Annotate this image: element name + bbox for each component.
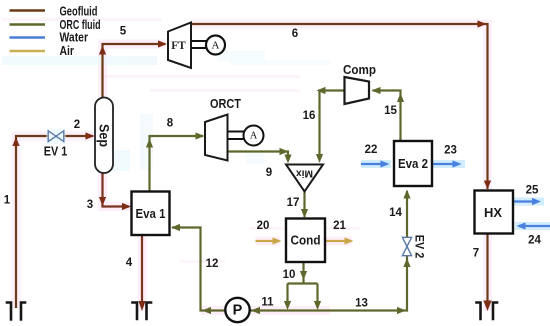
arrow wire5 up: [99, 46, 106, 55]
svg-text:11: 11: [261, 297, 274, 309]
svg-text:1: 1: [4, 195, 11, 207]
wire 5 (Sep top to FT): [103, 44, 166, 98]
svg-text:23: 23: [444, 145, 457, 157]
wire 11 (bottom run into pump): [250, 309, 319, 311]
svg-text:EV 1: EV 1: [44, 145, 68, 159]
glow artifacts (pink halo along geofluid pipes): [16, 24, 488, 311]
wire 4 (Eva 1 to injection well): [141, 235, 143, 301]
svg-text:Mix: Mix: [296, 168, 313, 180]
arrow wire24 into HX: [517, 222, 526, 229]
arrow wire13 right at corner: [397, 307, 406, 314]
svg-text:FT: FT: [171, 38, 186, 52]
wire 23 (water out of Eva 2): [432, 163, 459, 165]
mixer Mix: [286, 165, 323, 192]
arrow wire10 left branch down: [284, 301, 291, 310]
svg-text:16: 16: [303, 110, 316, 122]
wire 7 (HX to injection well): [486, 234, 488, 302]
svg-text:9: 9: [266, 167, 272, 179]
glow artifacts (cyan patches): [2, 51, 330, 171]
svg-text:14: 14: [389, 207, 402, 219]
wire 6 (FT to HX): [191, 24, 488, 189]
arrow wire4 down into well: [138, 301, 145, 311]
svg-text:2: 2: [74, 119, 80, 131]
wire 16 (Comp to Mix): [320, 91, 344, 156]
svg-text:20: 20: [257, 220, 270, 232]
wire 15 (Eva 2 to Comp): [373, 91, 401, 142]
arrow wire9 down into Mix: [284, 155, 291, 164]
svg-text:24: 24: [528, 235, 541, 247]
svg-text:HX: HX: [484, 205, 502, 220]
arrow wire16 left at corner: [317, 87, 326, 94]
wire 24 (water into HX): [519, 225, 550, 227]
wire 14 (EV 2 to Eva 2): [406, 191, 408, 238]
arrow wire7 down into well: [483, 301, 491, 312]
legend Air line: [10, 50, 46, 52]
arrow wire14 up into Eva 2: [403, 190, 410, 199]
svg-text:5: 5: [120, 26, 127, 38]
svg-text:Cond: Cond: [291, 234, 321, 248]
svg-text:P: P: [233, 303, 243, 319]
arrow wire8 into ORCT: [196, 132, 205, 139]
svg-text:3: 3: [87, 199, 93, 211]
wire 8 (Eva 1 to ORCT): [150, 136, 204, 192]
svg-text:Water: Water: [60, 29, 89, 44]
arrow wire22 into Eva 2: [381, 160, 390, 167]
wire 10 (Cond outlet split): [288, 262, 318, 303]
separator Sep: [95, 98, 113, 174]
svg-text:15: 15: [384, 105, 397, 117]
arrow wire15 into Comp: [372, 87, 381, 94]
legend labels: [60, 3, 101, 58]
heat exchanger HX: [475, 191, 514, 234]
legend Water line: [10, 36, 46, 38]
arrow wire1 up: [12, 137, 19, 146]
wire 12 (pump to Eva 1): [172, 228, 226, 311]
valve EV 1: [47, 129, 66, 145]
ORC arrowheads: [146, 87, 411, 314]
arrow wire3 down at corner: [99, 197, 106, 206]
svg-text:A: A: [250, 131, 258, 142]
well symbol middle (line 4): [133, 303, 152, 320]
wire 1 (production well to EV 1): [16, 136, 48, 308]
well symbol left (line 1): [7, 303, 25, 320]
legend Geofluid line: [10, 9, 46, 12]
glow (cyan halo along water pipes): [361, 164, 550, 226]
svg-text:4: 4: [126, 257, 133, 269]
svg-text:Comp: Comp: [343, 62, 376, 77]
svg-text:7: 7: [473, 248, 479, 260]
arrow wire17 down into Cond: [301, 209, 308, 218]
condenser Cond: [286, 219, 325, 263]
wire 25 (water out of HX): [513, 200, 539, 202]
wire 3 (Sep bottom to Eva 1): [103, 173, 130, 207]
wire 21 (air out of Cond): [325, 240, 351, 242]
arrow wire15 up at corner: [397, 93, 404, 102]
svg-text:8: 8: [167, 118, 174, 130]
generator A (ORCT): [244, 126, 264, 146]
svg-text:Eva 2: Eva 2: [398, 157, 428, 171]
FT shaft: [191, 41, 207, 48]
svg-text:13: 13: [355, 298, 368, 310]
svg-text:25: 25: [526, 185, 539, 197]
pump P: [225, 298, 249, 322]
arrow wire20 into Cond: [273, 237, 282, 244]
wire 17 (Mix to Cond): [303, 192, 305, 218]
svg-text:17: 17: [287, 197, 300, 209]
svg-text:A: A: [212, 40, 220, 52]
arrow wire16 down into Mix: [316, 154, 323, 163]
svg-text:21: 21: [333, 220, 346, 232]
svg-text:22: 22: [365, 144, 378, 156]
turbine FT: [168, 23, 191, 69]
arrow wire6 right at corner: [478, 20, 487, 27]
svg-text:EV 2: EV 2: [413, 235, 427, 259]
geofluid arrowheads: [12, 20, 491, 311]
svg-text:12: 12: [206, 258, 219, 270]
arrow wire5 into FT: [158, 40, 167, 47]
arrow wire6 down into HX: [484, 181, 491, 190]
svg-text:10: 10: [283, 269, 296, 281]
arrow wire8 up: [146, 139, 153, 148]
valve EV 2: [402, 237, 411, 255]
svg-text:Air: Air: [60, 43, 75, 58]
arrow wire9 right at corner: [280, 148, 289, 155]
evaporator Eva 2: [394, 141, 432, 186]
turbine ORCT: [205, 96, 241, 161]
wire 9 (ORCT to Mix): [228, 152, 288, 157]
wire 13 (bottom run to EV 2): [318, 256, 408, 311]
arrow wire11 into pump: [251, 307, 260, 314]
wire 22 (water into Eva 2): [361, 163, 387, 165]
wire 2 (EV 1 to Sep): [64, 135, 93, 137]
wire 20 (air into Cond): [256, 240, 280, 242]
arrow wire23 out: [453, 160, 462, 167]
arrow wire25 out: [532, 198, 541, 205]
arrow wire13 up into EV 2: [403, 258, 410, 267]
arrow wire10 down: [300, 271, 307, 280]
arrow wire10 right branch down: [314, 301, 321, 310]
arrow wire12 left at corner: [202, 307, 211, 314]
arrow wire21 out: [345, 237, 354, 244]
svg-text:Sep: Sep: [97, 124, 112, 147]
ORCT shaft: [228, 132, 245, 140]
svg-text:6: 6: [292, 28, 298, 40]
arrow wire3 into Eva 1: [122, 203, 131, 210]
well symbol right (line 7): [477, 303, 498, 320]
svg-text:ORCT: ORCT: [210, 96, 241, 111]
legend ORC fluid line: [10, 23, 46, 26]
evaporator Eva 1: [132, 192, 170, 236]
compressor Comp: [343, 62, 376, 104]
generator A (FT): [206, 36, 225, 55]
arrow wire12 into Eva 1: [171, 224, 180, 231]
arrow wire2 into Sep: [86, 132, 95, 139]
svg-text:Eva 1: Eva 1: [136, 207, 166, 221]
